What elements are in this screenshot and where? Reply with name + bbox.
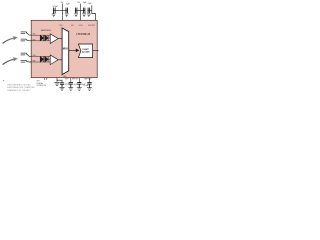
diode D3 [40, 56, 43, 62]
wire ref stub 3 [89, 78, 91, 83]
svg-text:VDDLBYP: VDDLBYP [88, 25, 95, 27]
input arrow channel 1 [2, 36, 18, 44]
capacitor C7 [69, 83, 73, 88]
node footnote dot [3, 80, 4, 81]
wire A8 out [58, 59, 62, 61]
op-amp A8 [50, 55, 58, 65]
svg-text:1µF: 1µF [83, 2, 87, 4]
capacitor C3 [75, 8, 77, 13]
svg-text:4.7µF: 4.7µF [52, 6, 58, 8]
svg-text:SAMPLERS: SAMPLERS [41, 29, 52, 32]
ground main [54, 80, 59, 85]
capacitor C6 [60, 83, 64, 87]
capacitor C1 4.7uF [54, 8, 56, 14]
svg-text:IN8−: IN8− [33, 61, 37, 63]
ground C6 [60, 88, 65, 91]
wire ch2 in- [26, 60, 31, 63]
svg-text:18-BIT: 18-BIT [82, 49, 89, 51]
capacitor C9 [87, 83, 91, 88]
svg-text:5V: 5V [61, 2, 64, 4]
node 5V rail B [75, 4, 85, 21]
IC block U1 LTC2348 body [31, 20, 97, 77]
wire ch1 bottom rail [31, 40, 50, 42]
svg-text:ΔΣ ADC: ΔΣ ADC [82, 51, 90, 54]
svg-text:VDDL: VDDL [79, 25, 83, 27]
capacitor C4 [83, 8, 85, 13]
wire ch1 top rail [31, 34, 50, 36]
ground C8 [77, 88, 82, 91]
wire mux to adc [69, 49, 76, 51]
input arrow channel 2 [2, 57, 18, 65]
mux U2 [62, 28, 69, 75]
SPI stub 1 [44, 78, 46, 80]
node VDD rail C [88, 5, 96, 20]
wire gnd stub [57, 78, 62, 83]
node 5V rail A [53, 4, 68, 21]
ground C2 [65, 14, 69, 17]
capacitor C8 [77, 83, 81, 88]
capacitor C2 [66, 8, 68, 13]
svg-text:10µF: 10µF [84, 85, 89, 87]
wire diode to amp ch1 [48, 37, 50, 39]
label SPI [37, 81, 47, 87]
svg-text:CONTROLS: CONTROLS [37, 85, 47, 87]
ground C4 [82, 14, 86, 17]
wire ch1 in- [26, 39, 31, 42]
diode D1 [40, 35, 43, 41]
connector stub ch2 + [21, 53, 27, 55]
SPI stub 2 [46, 78, 48, 80]
ground C1 [52, 14, 56, 17]
svg-text:MUX: MUX [63, 48, 69, 50]
connector stub ch1 - [21, 39, 27, 41]
svg-text:IN1−: IN1− [33, 39, 37, 41]
caption note [7, 85, 35, 92]
svg-text:VDD: VDD [59, 25, 62, 27]
svg-text:1µF: 1µF [66, 4, 70, 6]
diode D4 [45, 56, 48, 62]
node arrow into ADC [76, 49, 80, 53]
svg-text:LTC2348-18: LTC2348-18 [76, 33, 90, 36]
wire adc out [93, 50, 99, 52]
capacitor C5 [88, 8, 90, 13]
wire ch2 top rail [31, 55, 50, 57]
wire ch1 in+ [26, 33, 31, 36]
wire ch2 in+ [26, 54, 31, 57]
wire ch2 bottom rail [31, 61, 50, 63]
wire ref stub 1 [70, 78, 72, 83]
svg-text:1µF: 1µF [88, 3, 92, 5]
ground C9 [87, 88, 92, 91]
connector stub ch1 + [21, 32, 27, 34]
diode D2 [45, 35, 48, 41]
svg-text:REFOUT: REFOUT [72, 79, 79, 81]
svg-text:CHANNELS OF THE ADC: CHANNELS OF THE ADC [7, 89, 31, 92]
ground C3 [74, 14, 78, 17]
wire ref stub 2 [78, 78, 80, 83]
ground C7 [68, 88, 73, 91]
wire A1 out [58, 38, 62, 40]
svg-text:SIMULTANEOUSLY SAMPLED: SIMULTANEOUSLY SAMPLED [7, 86, 35, 89]
ADC U3 [78, 44, 92, 58]
svg-text:REF: REF [65, 79, 68, 81]
connector stub ch2 - [21, 60, 27, 62]
ground C5 [87, 14, 91, 17]
op-amp A1 [50, 34, 58, 44]
svg-text:REFGND: REFGND [84, 79, 92, 81]
wire diode to amp ch2 [48, 58, 50, 60]
